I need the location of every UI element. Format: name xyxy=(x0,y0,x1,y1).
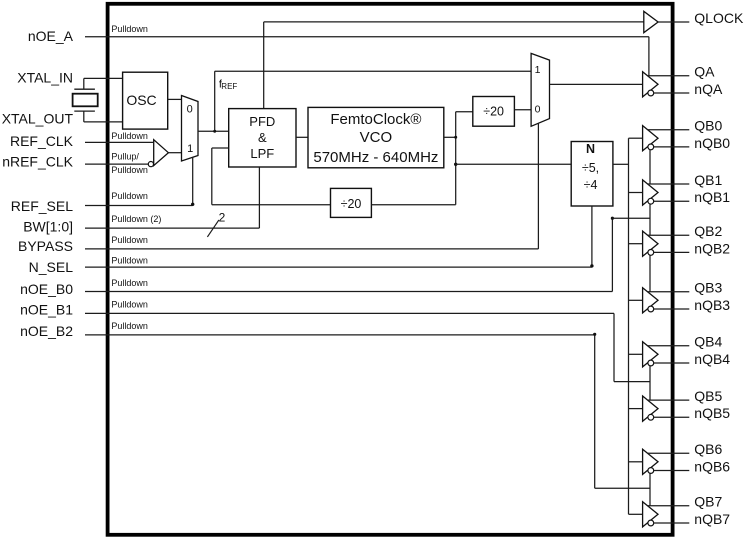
svg-text:nQB0: nQB0 xyxy=(694,135,730,151)
crystal X1 body xyxy=(73,94,98,107)
IC outer boundary xyxy=(108,4,673,535)
wire nREF_CLK xyxy=(85,163,148,165)
svg-text:QB7: QB7 xyxy=(694,494,722,510)
wire QB clock distribution vertical xyxy=(628,138,630,514)
svg-text:Pullup/: Pullup/ xyxy=(111,152,139,162)
wire feedback horizontal to /20 xyxy=(212,204,331,206)
svg-text:LPF: LPF xyxy=(250,146,274,161)
svg-text:nQB1: nQB1 xyxy=(694,189,730,205)
inversion bubble nQB3 xyxy=(648,306,654,312)
wire VCO distribution vertical xyxy=(455,112,457,205)
wire REF_CLK xyxy=(85,141,153,143)
wire bypass mux output to QA buffer xyxy=(550,83,643,85)
wire lock-detect horizontal to QLOCK buffer xyxy=(264,21,644,23)
divider U-div20b (/20 feedback) xyxy=(331,188,372,217)
wire nOE_B1 vertical xyxy=(613,313,615,381)
wire clock input stub to buffer QB2 xyxy=(629,243,643,245)
wire nOE_B2 horizontal to QB bank chain xyxy=(595,487,650,489)
wire REF_SEL select vertical xyxy=(192,157,194,205)
divider U-div20a (/20 output path) xyxy=(473,97,515,127)
wire QB3 complementary output xyxy=(654,308,690,310)
svg-text:Pulldown (2): Pulldown (2) xyxy=(111,214,161,224)
svg-text:QLOCK: QLOCK xyxy=(694,10,744,26)
svg-text:&: & xyxy=(258,130,267,145)
wire REF_SEL xyxy=(85,205,193,207)
svg-text:÷20: ÷20 xyxy=(483,105,504,119)
svg-text:nOE_B0: nOE_B0 xyxy=(20,281,73,297)
svg-text:nREF_CLK: nREF_CLK xyxy=(2,153,73,169)
buffer QB1 (differential) xyxy=(643,180,658,205)
mux REF_SEL (reference select) xyxy=(182,96,199,162)
svg-text:N: N xyxy=(586,142,595,156)
inversion bubble nQA xyxy=(648,90,654,96)
svg-text:nOE_B2: nOE_B2 xyxy=(20,323,73,339)
wire nOE_B2 vertical xyxy=(594,335,596,488)
wire clock input stub to buffer QB3 xyxy=(629,299,643,301)
wire QB6 true output xyxy=(648,452,690,454)
buffer QB6 (differential) xyxy=(643,449,658,474)
svg-text:1: 1 xyxy=(187,143,193,155)
svg-text:REF_CLK: REF_CLK xyxy=(10,133,74,149)
wire nOE_B1 horizontal to QB bank chain xyxy=(614,381,650,383)
inversion bubble nQB2 xyxy=(648,250,654,256)
svg-text:REF: REF xyxy=(221,82,237,91)
wire VCO output xyxy=(444,136,456,138)
wire QB5 complementary output xyxy=(654,416,690,418)
svg-text:Pulldown: Pulldown xyxy=(111,300,148,310)
svg-text:OSC: OSC xyxy=(126,92,156,108)
wire clock input stub to buffer QB6 xyxy=(629,461,643,463)
wire feedback /20 to VCO vertical xyxy=(371,204,455,206)
wire BYPASS xyxy=(85,248,538,250)
wire QB6 complementary output xyxy=(654,470,690,472)
wire clock input stub to buffer QB0 xyxy=(629,137,643,139)
svg-text:QB6: QB6 xyxy=(694,441,722,457)
svg-text:÷4: ÷4 xyxy=(584,178,598,192)
wire QB5 true output xyxy=(648,399,690,401)
input buffer U-ref (REF_CLK/nREF_CLK) xyxy=(154,140,169,166)
inversion bubble nQB4 xyxy=(648,360,654,366)
buffer QB0 (differential) xyxy=(643,126,658,151)
wire QB2 true output xyxy=(648,234,690,236)
svg-text:QA: QA xyxy=(694,64,715,80)
wire XTAL_IN xyxy=(84,77,123,79)
svg-text:QB0: QB0 xyxy=(694,118,722,134)
wire QB7 true output xyxy=(648,505,690,507)
buffer QB3 (differential) xyxy=(643,288,658,313)
wire QB4 complementary output xyxy=(654,362,690,364)
buffer QB7 (differential) xyxy=(643,502,658,527)
svg-text:570MHz - 640MHz: 570MHz - 640MHz xyxy=(313,149,438,166)
FemtoClock VCO block xyxy=(308,107,444,167)
inversion bubble nQB0 xyxy=(648,144,654,150)
wire fREF vertical tap xyxy=(214,71,216,131)
svg-text:nQB7: nQB7 xyxy=(694,511,730,527)
wire N_SEL select vertical xyxy=(591,206,593,267)
wire QB7 complementary output xyxy=(654,522,690,524)
inversion bubble nQB7 xyxy=(648,520,654,526)
svg-text:N_SEL: N_SEL xyxy=(29,259,74,275)
wire N divider output xyxy=(613,163,629,165)
wire N_SEL xyxy=(85,266,592,268)
wire nOE_A xyxy=(85,36,649,38)
wire nOE_B0 xyxy=(85,291,612,293)
wire nOE_B1 xyxy=(85,312,614,314)
svg-text:VCO: VCO xyxy=(360,129,393,146)
wire nOE_B2 xyxy=(85,334,595,336)
wire BW[1:0] xyxy=(85,227,259,229)
svg-text:XTAL_IN: XTAL_IN xyxy=(17,70,73,86)
wire clock input stub to buffer QB4 xyxy=(629,353,643,355)
svg-text:nOE_B1: nOE_B1 xyxy=(20,302,73,318)
wire nOE_A vertical to QA buffer xyxy=(648,37,650,76)
oscillator OSC block xyxy=(123,72,168,129)
wire QA complementary output xyxy=(654,92,690,94)
svg-text:nQA: nQA xyxy=(694,81,723,97)
crystal X1 top plate xyxy=(74,88,95,90)
mux BYPASS xyxy=(531,53,549,126)
wire QB3 true output xyxy=(648,291,690,293)
inversion bubble nQB1 xyxy=(648,198,654,204)
wire PFD output to VCO xyxy=(296,136,308,138)
svg-text:QB1: QB1 xyxy=(694,172,722,188)
wire XTAL_OUT xyxy=(84,121,123,123)
wire fREF horizontal to bypass mux xyxy=(215,70,531,72)
bus width slash xyxy=(207,220,219,237)
wire enable chain QB2 to QB3 xyxy=(649,255,651,291)
svg-text:QB3: QB3 xyxy=(694,280,722,296)
svg-text:nQB3: nQB3 xyxy=(694,297,730,313)
svg-text:1: 1 xyxy=(535,64,541,76)
wire QB0 complementary output xyxy=(654,146,690,148)
svg-text:nOE_A: nOE_A xyxy=(28,28,74,44)
svg-text:nQB6: nQB6 xyxy=(694,458,730,474)
svg-text:FemtoClock®: FemtoClock® xyxy=(330,111,421,128)
svg-text:QB5: QB5 xyxy=(694,388,722,404)
svg-text:÷20: ÷20 xyxy=(341,197,362,211)
wire enable chain QB4 to QB5 xyxy=(649,366,651,400)
svg-text:0: 0 xyxy=(535,104,541,116)
wire PFD feedback input stub xyxy=(212,147,229,149)
buffer QB2 (differential) xyxy=(643,231,658,256)
svg-text:Pulldown: Pulldown xyxy=(111,191,148,201)
svg-text:REF_SEL: REF_SEL xyxy=(11,198,73,214)
wire clock input stub to buffer QB7 xyxy=(629,513,643,515)
svg-text:nQB4: nQB4 xyxy=(694,351,730,367)
wire VCO to N divider input xyxy=(456,163,572,165)
wire feedback vertical to PFD xyxy=(211,148,213,205)
svg-text:Pulldown: Pulldown xyxy=(111,165,148,175)
PFD & LPF block xyxy=(229,109,296,167)
wire lock-detect vertical from PFD top xyxy=(263,22,265,109)
wire enable chain QB1 to QB2 xyxy=(649,204,651,235)
crystal X1 bottom plate xyxy=(74,110,95,112)
wire mux output to PFD xyxy=(198,130,229,132)
wire enable chain QB0 to QB1 xyxy=(649,150,651,184)
svg-text:Pulldown: Pulldown xyxy=(111,255,148,265)
crystal X1 lead to XTAL_OUT xyxy=(83,111,85,122)
buffer QA (differential) xyxy=(643,72,658,97)
wire /20 to bypass mux input 0 xyxy=(514,109,531,111)
buffer QB5 (differential) xyxy=(643,396,658,421)
svg-text:Pulldown: Pulldown xyxy=(111,131,148,141)
wire QB1 complementary output xyxy=(654,200,690,202)
svg-text:nQB5: nQB5 xyxy=(694,405,730,421)
svg-text:QB4: QB4 xyxy=(694,334,722,350)
svg-text:PFD: PFD xyxy=(249,114,275,129)
svg-text:QB2: QB2 xyxy=(694,223,722,239)
divider N (÷5, ÷4) xyxy=(571,142,613,207)
wire QB1 true output xyxy=(648,183,690,185)
wire QA true output xyxy=(648,75,690,77)
wire nOE_B0 vertical xyxy=(611,218,613,291)
svg-text:BW[1:0]: BW[1:0] xyxy=(23,219,73,235)
inversion bubble nQB6 xyxy=(648,468,654,474)
wire QB4 true output xyxy=(648,345,690,347)
buffer QB4 (differential) xyxy=(643,342,658,367)
wire to divider /20 (output path) xyxy=(456,111,473,113)
svg-text:Pulldown: Pulldown xyxy=(111,235,148,245)
inversion bubble nQB5 xyxy=(648,414,654,420)
inversion bubble on nREF_CLK input xyxy=(148,162,153,167)
wire OSC output to mux xyxy=(168,98,182,100)
svg-text:Pulldown: Pulldown xyxy=(111,24,148,34)
wire enable chain QB6 to QB7 xyxy=(649,474,651,506)
wire BYPASS select vertical xyxy=(537,123,539,249)
svg-text:XTAL_OUT: XTAL_OUT xyxy=(2,110,74,126)
wire BW[1:0] vertical to PFD bottom xyxy=(258,167,260,228)
svg-text:2: 2 xyxy=(219,211,226,225)
buffer QLOCK xyxy=(644,11,658,32)
svg-text:÷5,: ÷5, xyxy=(582,161,599,175)
svg-text:Pulldown: Pulldown xyxy=(111,321,148,331)
svg-text:nQB2: nQB2 xyxy=(694,240,730,256)
wire clock input stub to buffer QB5 xyxy=(629,408,643,410)
crystal X1 lead from XTAL_IN xyxy=(83,78,85,89)
wire QB0 true output xyxy=(648,129,690,131)
wire input buffer output to mux input 1 xyxy=(168,152,181,154)
wire nOE_B0 horizontal to QB bank chain xyxy=(612,217,650,219)
svg-text:0: 0 xyxy=(187,104,193,116)
wire clock input stub to buffer QB1 xyxy=(629,192,643,194)
wire QB2 complementary output xyxy=(654,251,690,253)
svg-text:BYPASS: BYPASS xyxy=(18,238,73,254)
svg-text:Pulldown: Pulldown xyxy=(111,278,148,288)
wire QLOCK output xyxy=(658,21,689,23)
